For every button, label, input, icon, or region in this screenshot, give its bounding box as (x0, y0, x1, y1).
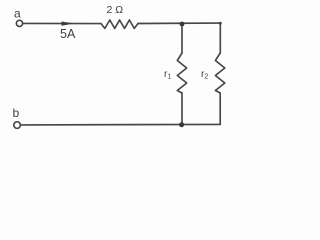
svg-text:r1: r1 (164, 69, 171, 80)
svg-text:a: a (14, 7, 21, 21)
svg-text:b: b (13, 106, 20, 120)
svg-text:5A: 5A (60, 27, 76, 41)
svg-text:2 Ω: 2 Ω (107, 4, 124, 16)
svg-text:r2: r2 (201, 69, 208, 80)
